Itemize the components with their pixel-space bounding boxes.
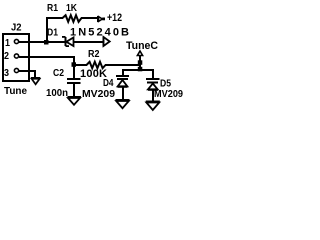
J2 pin 2 circle [14, 54, 18, 58]
ground at J2 pin3 [31, 77, 41, 84]
svg-text:D5: D5 [160, 79, 171, 90]
ground below D5 [146, 101, 160, 111]
J2 pin 1 circle [14, 39, 18, 43]
wire corner down to D4 [122, 69, 124, 76]
svg-text:R1: R1 [47, 3, 58, 14]
net arrow TuneC pointing right [103, 37, 110, 47]
resistor R2 [0, 0, 1, 1]
svg-text:+12: +12 [107, 12, 122, 24]
node junction pin1/R1/D1 [44, 40, 49, 45]
wire corner down to pin3 ground [34, 70, 36, 77]
ground below D4 [116, 99, 130, 108]
wire pin1 to D1 [19, 41, 65, 43]
wire TuneC vertical down [139, 60, 141, 70]
wire D1 to TuneC arrow [74, 41, 103, 43]
ground below C2 [68, 96, 82, 105]
svg-text:Tune: Tune [4, 86, 27, 97]
svg-text:MV209: MV209 [154, 89, 183, 100]
svg-text:2: 2 [4, 51, 9, 62]
svg-text:100n: 100n [46, 88, 68, 99]
svg-text:3: 3 [4, 68, 9, 79]
svg-text:D1: D1 [47, 28, 58, 39]
wire corner down to D5 [152, 69, 154, 79]
connector J2 body [3, 34, 29, 81]
power flag +12 [97, 16, 105, 22]
resistor R1 [0, 0, 1, 1]
net arrow TuneC pointing up [137, 51, 142, 62]
svg-text:TuneC: TuneC [126, 40, 158, 52]
svg-text:1N5240B: 1N5240B [70, 27, 129, 39]
varactor diode D5 [146, 78, 160, 101]
varactor diode D4 [116, 75, 129, 100]
wire pin3 to ground [19, 70, 36, 72]
node TuneC junction upper [138, 60, 143, 65]
svg-text:C2: C2 [53, 68, 64, 79]
node TuneC junction lower [138, 67, 143, 72]
wire junction up to R1 [46, 17, 48, 42]
svg-text:J2: J2 [11, 23, 22, 34]
svg-text:D4: D4 [103, 78, 114, 89]
wire bus to D4 and D5 [122, 69, 154, 71]
zener diode D1 [62, 36, 74, 47]
J2 pin 3 circle [14, 68, 18, 72]
svg-text:MV209: MV209 [82, 89, 115, 100]
svg-text:1K: 1K [66, 3, 78, 14]
wire pin2 to C2 corner [19, 56, 75, 58]
svg-text:R2: R2 [88, 49, 100, 60]
svg-text:1: 1 [5, 38, 10, 49]
node junction pin2/R2/C2 [72, 62, 77, 67]
wire corner down to R2 node [73, 56, 75, 65]
capacitor C2 [67, 66, 81, 96]
